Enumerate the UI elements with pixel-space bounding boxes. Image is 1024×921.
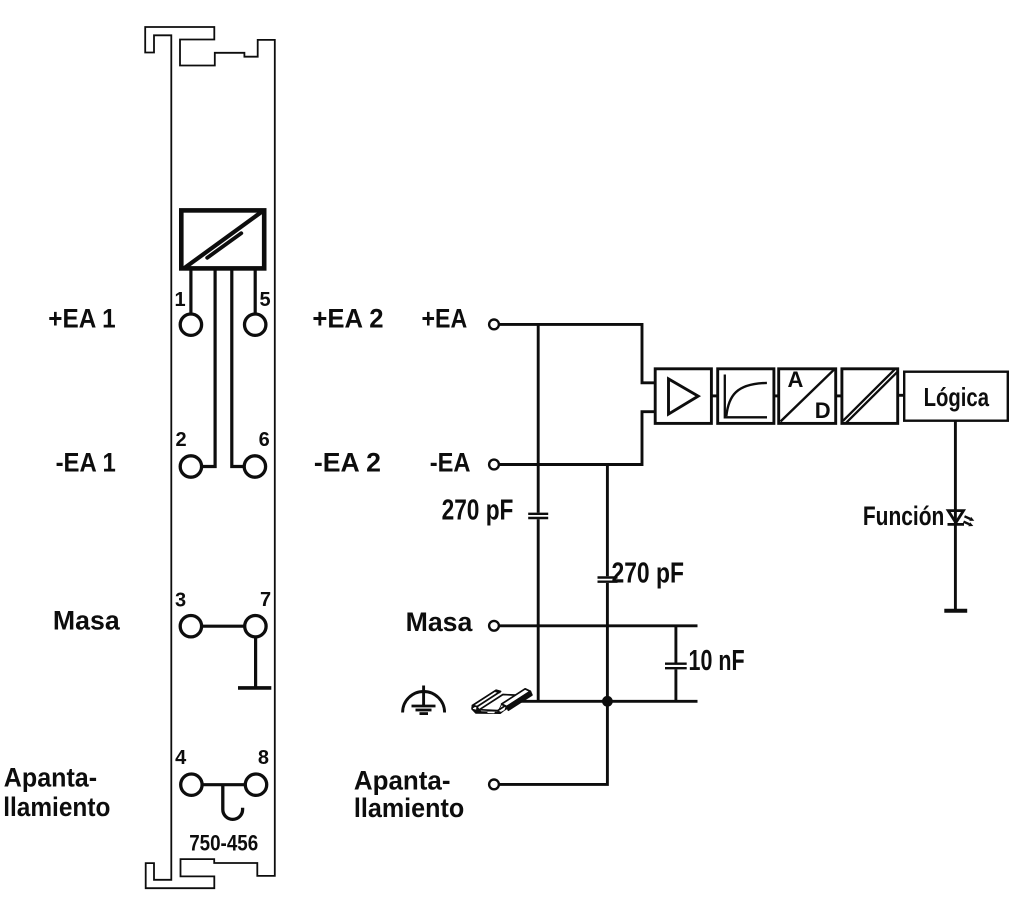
svg-text:270 pF: 270 pF	[612, 558, 684, 590]
junction dot	[602, 696, 613, 707]
svg-text:Lógica: Lógica	[924, 382, 990, 412]
capacitor C2 270 pF	[598, 578, 618, 582]
ground rail wire	[521, 700, 698, 703]
pin 1	[180, 314, 201, 335]
wire link pins 4-8	[203, 783, 244, 786]
wire Masa branch to C3	[674, 626, 677, 663]
svg-text:-EA 2: -EA 2	[314, 448, 381, 478]
filter curve	[726, 383, 767, 416]
svg-text:270 pF: 270 pF	[442, 494, 514, 526]
wire amp to filter	[711, 394, 717, 397]
svg-text:2: 2	[175, 429, 186, 451]
capacitor C3 10 nF	[665, 664, 687, 669]
shield hook on link 4-8	[223, 786, 243, 819]
wire link pins 3-7	[203, 625, 244, 628]
wire +EA branch to C1	[537, 324, 540, 512]
svg-text:8: 8	[258, 747, 269, 769]
wire Masa	[499, 624, 697, 627]
isolation box U1 in module	[181, 210, 264, 268]
LED cathode bar	[948, 523, 965, 526]
svg-text:Masa: Masa	[406, 607, 474, 637]
svg-text:Apanta-: Apanta-	[4, 763, 97, 793]
wire C2 to rail	[606, 583, 609, 701]
wire isolation to logic	[898, 394, 905, 397]
wire pin5 stub	[254, 269, 257, 315]
wire C1 to rail	[537, 519, 540, 701]
isolation double diagonal	[843, 370, 895, 421]
pin 8	[245, 774, 266, 795]
pin 6	[244, 456, 265, 477]
wire +EA to amplifier	[499, 324, 656, 382]
wire -EA branch to C2	[606, 465, 609, 577]
svg-text:10 nF: 10 nF	[689, 645, 745, 677]
ground symbol	[403, 686, 445, 714]
module 750-456 outline	[145, 27, 275, 888]
LED arrow 2	[964, 522, 974, 527]
wire LED down	[954, 524, 957, 609]
svg-text:D: D	[815, 398, 831, 423]
A/D diagonal	[781, 370, 835, 422]
terminal +EA	[489, 320, 499, 330]
svg-text:1: 1	[174, 289, 185, 311]
svg-text:6: 6	[259, 429, 270, 451]
terminal Masa	[489, 621, 499, 631]
termination bar	[944, 609, 967, 613]
pin 3	[180, 616, 201, 637]
svg-text:llamiento: llamiento	[3, 792, 110, 822]
pin 2	[180, 456, 201, 477]
isolation block	[842, 369, 898, 424]
svg-text:4: 4	[175, 747, 187, 769]
svg-text:+EA 1: +EA 1	[48, 304, 115, 334]
wire junction to Apantallamiento terminal	[499, 701, 607, 784]
svg-text:5: 5	[259, 289, 270, 311]
svg-text:+EA 2: +EA 2	[312, 304, 383, 334]
ground bar under pin 7	[238, 686, 271, 690]
wire filter to A/D	[774, 394, 779, 397]
logic block	[904, 372, 1008, 421]
A/D converter block	[779, 369, 836, 424]
terminal -EA	[489, 460, 499, 470]
svg-text:Apanta-: Apanta-	[354, 766, 451, 796]
ground lead under pin 7	[254, 638, 257, 687]
DIN rail icon	[471, 689, 532, 714]
pin 4	[181, 774, 202, 795]
wire center-left to pin2	[203, 269, 215, 467]
filter block	[718, 369, 774, 424]
svg-text:750-456: 750-456	[189, 830, 258, 855]
svg-text:7: 7	[260, 589, 271, 611]
LED arrow 1	[965, 516, 975, 521]
pin 5	[245, 314, 266, 335]
wire C3 to rail	[674, 669, 677, 701]
capacitor C1 270 pF	[528, 514, 548, 518]
wire A/D to isolation	[836, 394, 842, 397]
svg-text:-EA 1: -EA 1	[56, 448, 116, 478]
svg-text:-EA: -EA	[430, 448, 471, 478]
wire pin1 stub	[189, 269, 192, 315]
wire -EA to amplifier	[499, 412, 656, 465]
filter axes	[725, 375, 767, 418]
wire center-right to pin6	[232, 269, 243, 467]
LED Funcion triangle	[948, 511, 963, 523]
svg-text:Función: Función	[863, 501, 944, 531]
pin 7	[245, 616, 266, 637]
amplifier triangle	[669, 379, 699, 414]
svg-text:A: A	[787, 367, 803, 392]
wire logic to LED	[954, 421, 957, 524]
svg-text:Masa: Masa	[53, 606, 121, 636]
svg-text:llamiento: llamiento	[354, 793, 464, 823]
terminal Apantallamiento	[489, 780, 499, 790]
amplifier block	[655, 369, 711, 424]
svg-text:3: 3	[175, 589, 186, 611]
svg-text:+EA: +EA	[422, 304, 468, 334]
